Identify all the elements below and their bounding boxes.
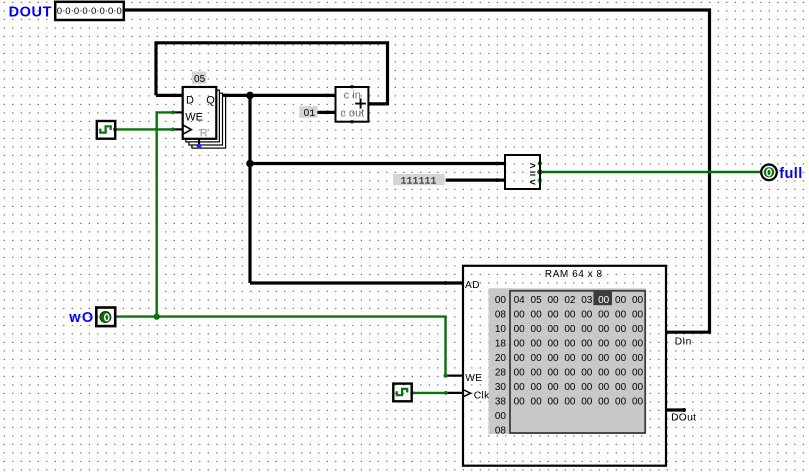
svg-text:R: R [200, 128, 208, 140]
svg-text:00: 00 [615, 295, 627, 306]
svg-text:D: D [186, 95, 194, 107]
svg-text:08: 08 [495, 310, 507, 321]
svg-text:00: 00 [547, 368, 559, 379]
svg-text:03: 03 [581, 295, 593, 306]
svg-text:38: 38 [495, 397, 507, 408]
svg-text:0: 0 [117, 6, 122, 17]
svg-text:00: 00 [598, 339, 610, 350]
svg-text:DOUT: DOUT [9, 4, 52, 20]
svg-text:00: 00 [632, 382, 644, 393]
svg-text:00: 00 [615, 310, 627, 321]
svg-text:00: 00 [547, 339, 559, 350]
svg-text:<: < [530, 176, 536, 188]
svg-text:00: 00 [531, 397, 543, 408]
svg-text:05: 05 [194, 74, 206, 85]
svg-text:00: 00 [632, 324, 644, 335]
svg-text:00: 00 [531, 339, 543, 350]
svg-text:WE: WE [465, 373, 482, 384]
svg-text:00: 00 [598, 368, 610, 379]
svg-text:00: 00 [632, 368, 644, 379]
svg-text:00: 00 [531, 310, 543, 321]
svg-text:00: 00 [581, 339, 593, 350]
svg-text:00: 00 [581, 397, 593, 408]
svg-text:00: 00 [514, 397, 526, 408]
svg-text:18: 18 [495, 339, 507, 350]
svg-text:00: 00 [615, 382, 627, 393]
svg-text:00: 00 [564, 382, 576, 393]
svg-text:10: 10 [495, 324, 507, 335]
svg-text:0: 0 [82, 6, 87, 17]
svg-text:00: 00 [564, 368, 576, 379]
svg-text:20: 20 [495, 353, 507, 364]
svg-text:00: 00 [564, 397, 576, 408]
svg-text:00: 00 [632, 295, 644, 306]
svg-text:02: 02 [564, 295, 576, 306]
svg-text:00: 00 [495, 411, 507, 422]
svg-text:AD: AD [465, 280, 480, 291]
svg-text:00: 00 [598, 324, 610, 335]
svg-text:00: 00 [514, 368, 526, 379]
svg-text:00: 00 [547, 382, 559, 393]
svg-text:00: 00 [564, 339, 576, 350]
svg-text:00: 00 [514, 339, 526, 350]
svg-text:0: 0 [91, 6, 96, 17]
svg-text:00: 00 [615, 368, 627, 379]
svg-text:00: 00 [564, 353, 576, 364]
svg-text:00: 00 [564, 310, 576, 321]
svg-text:00: 00 [547, 310, 559, 321]
svg-text:05: 05 [531, 295, 543, 306]
svg-text:00: 00 [632, 310, 644, 321]
svg-text:00: 00 [581, 310, 593, 321]
svg-text:00: 00 [547, 295, 559, 306]
svg-text:00: 00 [531, 368, 543, 379]
svg-text:00: 00 [564, 324, 576, 335]
svg-text:30: 30 [495, 382, 507, 393]
svg-text:00: 00 [581, 382, 593, 393]
svg-text:0: 0 [99, 6, 104, 17]
svg-text:RAM 64 x 8: RAM 64 x 8 [545, 269, 603, 280]
svg-text:Q: Q [206, 95, 215, 107]
svg-text:00: 00 [495, 295, 507, 306]
svg-text:00: 00 [615, 339, 627, 350]
svg-text:04: 04 [514, 295, 526, 306]
svg-text:00: 00 [598, 382, 610, 393]
svg-text:00: 00 [581, 368, 593, 379]
svg-text:00: 00 [632, 339, 644, 350]
svg-text:00: 00 [615, 324, 627, 335]
svg-text:00: 00 [581, 324, 593, 335]
svg-text:28: 28 [495, 368, 507, 379]
svg-text:00: 00 [531, 353, 543, 364]
svg-text:full: full [779, 166, 802, 182]
svg-text:00: 00 [598, 353, 610, 364]
svg-text:DOut: DOut [671, 413, 696, 424]
svg-text:00: 00 [514, 353, 526, 364]
svg-text:0: 0 [65, 6, 70, 17]
svg-text:111111: 111111 [401, 177, 437, 188]
svg-text:00: 00 [547, 324, 559, 335]
svg-text:00: 00 [598, 397, 610, 408]
svg-text:00: 00 [547, 397, 559, 408]
svg-text:08: 08 [495, 426, 507, 437]
svg-text:00: 00 [531, 382, 543, 393]
svg-text:00: 00 [615, 353, 627, 364]
svg-text:00: 00 [547, 353, 559, 364]
svg-text:c in: c in [344, 90, 361, 102]
svg-text:00: 00 [615, 397, 627, 408]
svg-text:0: 0 [108, 6, 113, 17]
svg-text:00: 00 [598, 310, 610, 321]
svg-text:1: 1 [309, 109, 315, 120]
svg-text:00: 00 [632, 397, 644, 408]
svg-text:00: 00 [581, 353, 593, 364]
svg-text:00: 00 [514, 382, 526, 393]
svg-text:WE: WE [185, 112, 203, 124]
svg-text:00: 00 [531, 324, 543, 335]
svg-text:00: 00 [632, 353, 644, 364]
svg-text:00: 00 [514, 310, 526, 321]
svg-text:0: 0 [74, 6, 79, 17]
svg-text:00: 00 [514, 324, 526, 335]
svg-text:0: 0 [57, 6, 62, 17]
svg-text:00: 00 [598, 295, 610, 306]
svg-text:Clk: Clk [474, 390, 490, 401]
svg-text:c out: c out [340, 107, 364, 119]
svg-text:wO: wO [68, 310, 94, 326]
svg-text:DIn: DIn [675, 336, 692, 347]
